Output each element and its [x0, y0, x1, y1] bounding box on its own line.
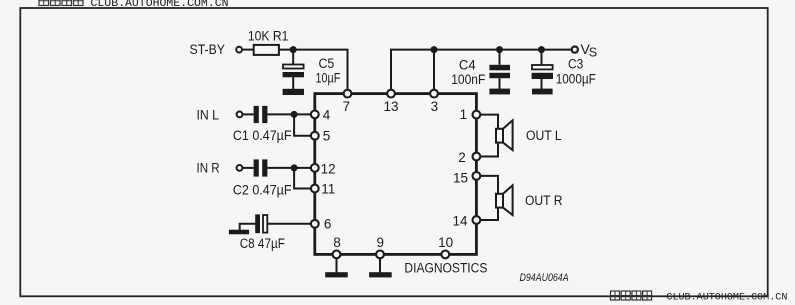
svg-text:C1 0.47µF: C1 0.47µF — [233, 128, 292, 143]
svg-text:11: 11 — [321, 182, 335, 197]
capacitor C2 — [254, 159, 259, 176]
node INR tap — [291, 164, 298, 171]
wire C1 to pin4 — [267, 113, 313, 115]
svg-text:DIAGNOSTICS: DIAGNOSTICS — [404, 261, 487, 276]
svg-text:C3: C3 — [568, 56, 583, 71]
svg-text:OUT R: OUT R — [525, 193, 563, 208]
svg-text:7: 7 — [343, 99, 351, 114]
capacitor C8 — [255, 214, 260, 233]
ground (C8) — [229, 230, 249, 235]
svg-text:4: 4 — [323, 107, 331, 122]
svg-text:IN L: IN L — [197, 107, 220, 122]
ground (pin8) — [336, 256, 338, 272]
ground (C3) — [532, 89, 553, 95]
wire speaker L to pin2 — [480, 142, 498, 156]
node A (R1/C5/pin7 junction) — [290, 46, 297, 53]
pin 11 — [311, 185, 319, 193]
IC U1 body — [315, 94, 477, 255]
ground (C4) — [489, 89, 510, 95]
node C3/rail — [538, 46, 545, 53]
wire jog to pin11 — [294, 168, 313, 189]
svg-text:IN R: IN R — [197, 161, 220, 176]
pin 12 — [311, 164, 319, 172]
pin 3 — [430, 90, 438, 98]
capacitor C4 — [499, 50, 501, 65]
pin 6 — [311, 220, 319, 228]
svg-text:100nF: 100nF — [451, 72, 485, 87]
pin 8 — [333, 251, 341, 259]
svg-text:10K R1: 10K R1 — [248, 28, 289, 43]
ground (pin9) — [379, 256, 381, 272]
terminal ST-BY — [236, 47, 242, 53]
svg-text:12: 12 — [321, 161, 336, 176]
wire R1 to pin7 corner — [279, 50, 348, 92]
svg-text:C4: C4 — [459, 57, 476, 72]
watermark bottom-right — [611, 291, 652, 300]
pin 5 — [311, 132, 319, 140]
svg-text:3: 3 — [431, 99, 439, 114]
svg-text:14: 14 — [452, 213, 468, 228]
wire jog to pin5 — [294, 114, 313, 135]
wire C2 to pin12 — [267, 167, 313, 169]
pin 10 — [441, 251, 449, 259]
pin 4 — [311, 111, 319, 119]
wire pin13 riser and Vs rail — [391, 50, 572, 92]
wire INR to C2 — [243, 167, 254, 169]
svg-text:10µF: 10µF — [316, 71, 341, 86]
svg-text:C8 47µF: C8 47µF — [240, 236, 285, 251]
terminal IN L — [237, 112, 243, 118]
svg-text:15: 15 — [453, 170, 468, 185]
svg-text:2: 2 — [458, 150, 466, 165]
capacitor C5 — [292, 50, 294, 64]
speaker OUT R — [496, 185, 513, 215]
pin 1 — [473, 111, 481, 119]
pin 13 — [387, 90, 395, 98]
wire C8 to pin6 — [268, 223, 313, 225]
terminal Vs — [572, 47, 578, 53]
terminal IN R — [237, 165, 243, 171]
svg-text:CLUB.AUTOHOME.COM.CN: CLUB.AUTOHOME.COM.CN — [666, 292, 787, 304]
wire ground to C8 — [240, 224, 256, 230]
svg-text:9: 9 — [376, 235, 384, 250]
speaker OUT L — [496, 120, 513, 150]
wire INL to C1 — [243, 113, 254, 115]
svg-text:1000µF: 1000µF — [556, 72, 596, 87]
svg-text:C5: C5 — [319, 56, 335, 71]
svg-text:5: 5 — [323, 129, 331, 144]
svg-text:C2 0.47µF: C2 0.47µF — [233, 183, 292, 198]
pin 2 — [473, 153, 481, 161]
svg-text:10: 10 — [438, 235, 453, 250]
watermark top-left (clipped at image top) — [39, 0, 83, 6]
pin 15 — [473, 172, 481, 180]
capacitor C3 — [541, 50, 543, 65]
wire ST-BY to R1 — [243, 49, 254, 51]
capacitor C1 — [254, 106, 259, 123]
svg-text:6: 6 — [324, 217, 332, 232]
pin 7 — [344, 90, 352, 98]
svg-text:1: 1 — [460, 107, 468, 122]
ground (C5) — [283, 89, 304, 95]
node pin3/rail — [431, 46, 438, 53]
svg-text:13: 13 — [383, 99, 398, 114]
pin 9 — [376, 251, 384, 259]
node INL tap — [291, 111, 298, 118]
resistor R1 — [254, 45, 279, 55]
node C4/rail — [496, 46, 503, 53]
svg-text:ST-BY: ST-BY — [190, 42, 226, 57]
svg-text:S: S — [589, 45, 597, 59]
svg-text:8: 8 — [333, 235, 341, 250]
svg-text:OUT L: OUT L — [526, 128, 562, 143]
wire pin3 riser — [433, 50, 435, 92]
wire pin15 to speaker R — [480, 176, 498, 194]
svg-text:CLUB.AUTOHOME.COM.CN: CLUB.AUTOHOME.COM.CN — [91, 0, 229, 10]
pin 14 — [473, 216, 481, 224]
wire pin1 to speaker L — [480, 115, 498, 130]
wire speaker R to pin14 — [480, 207, 498, 220]
svg-text:D94AU064A: D94AU064A — [520, 272, 569, 284]
